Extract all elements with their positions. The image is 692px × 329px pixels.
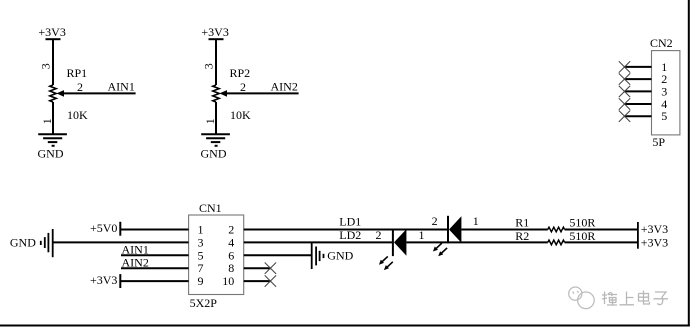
- svg-text:10: 10: [222, 274, 234, 288]
- svg-text:AIN1: AIN1: [122, 242, 149, 256]
- svg-text:GND: GND: [201, 146, 227, 160]
- svg-text:1: 1: [419, 228, 425, 242]
- svg-text:510R: 510R: [569, 216, 595, 230]
- svg-text:CN2: CN2: [650, 36, 673, 50]
- svg-text:AIN2: AIN2: [271, 80, 298, 94]
- svg-text:3: 3: [198, 235, 204, 249]
- svg-text:1: 1: [40, 118, 54, 124]
- svg-text:2: 2: [240, 80, 246, 94]
- svg-text:LD2: LD2: [339, 228, 361, 242]
- svg-text:RP1: RP1: [67, 66, 88, 80]
- svg-text:6: 6: [228, 248, 234, 262]
- svg-text:LD1: LD1: [339, 215, 361, 229]
- svg-text:GND: GND: [10, 236, 36, 250]
- svg-text:5: 5: [661, 109, 667, 123]
- svg-text:1: 1: [203, 118, 217, 124]
- svg-text:GND: GND: [327, 248, 353, 262]
- svg-text:2: 2: [228, 223, 234, 237]
- svg-text:2: 2: [432, 214, 438, 228]
- svg-text:5X2P: 5X2P: [190, 296, 218, 310]
- svg-text:2: 2: [77, 80, 83, 94]
- svg-text:+3V3: +3V3: [201, 25, 228, 39]
- svg-text:+5V0: +5V0: [90, 221, 117, 235]
- svg-text:+3V3: +3V3: [38, 25, 65, 39]
- svg-text:AIN1: AIN1: [108, 80, 135, 94]
- svg-text:2: 2: [376, 228, 382, 242]
- svg-text:+3V3: +3V3: [90, 273, 117, 287]
- svg-text:R2: R2: [515, 229, 529, 243]
- svg-text:3: 3: [201, 63, 215, 69]
- svg-text:3: 3: [38, 63, 52, 69]
- svg-text:1: 1: [198, 223, 204, 237]
- svg-text:+3V3: +3V3: [641, 235, 668, 249]
- svg-text:RP2: RP2: [230, 66, 251, 80]
- svg-text:CN1: CN1: [199, 201, 222, 215]
- svg-text:10K: 10K: [230, 108, 251, 122]
- svg-text:7: 7: [198, 261, 204, 275]
- svg-text:5P: 5P: [652, 135, 665, 149]
- svg-text:5: 5: [198, 248, 204, 262]
- svg-text:9: 9: [198, 274, 204, 288]
- svg-text:8: 8: [228, 261, 234, 275]
- svg-text:10K: 10K: [67, 108, 88, 122]
- svg-text:510R: 510R: [569, 229, 595, 243]
- svg-text:+3V3: +3V3: [641, 222, 668, 236]
- svg-text:GND: GND: [38, 146, 64, 160]
- svg-text:AIN2: AIN2: [122, 255, 149, 269]
- svg-text:1: 1: [473, 214, 479, 228]
- svg-text:4: 4: [228, 235, 234, 249]
- svg-text:R1: R1: [515, 216, 529, 230]
